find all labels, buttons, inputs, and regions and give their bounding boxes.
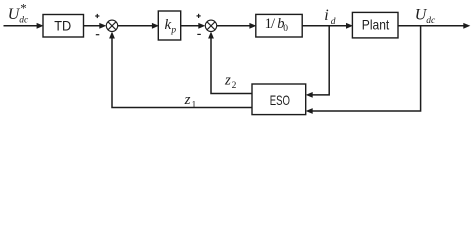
svg-text:d: d	[331, 17, 336, 27]
svg-text:dc: dc	[426, 16, 436, 26]
svg-text:*: *	[20, 0, 27, 15]
svg-text:1: 1	[192, 101, 197, 111]
svg-text:p: p	[170, 26, 176, 36]
svg-text:z: z	[224, 72, 231, 88]
svg-text:0: 0	[283, 24, 288, 34]
svg-text:TD: TD	[54, 17, 71, 33]
svg-text:2: 2	[232, 81, 237, 91]
svg-text:i: i	[324, 7, 328, 24]
svg-text:Plant: Plant	[362, 16, 390, 32]
svg-text:z: z	[184, 92, 191, 108]
svg-text:ESO: ESO	[270, 92, 290, 108]
svg-text:dc: dc	[19, 15, 29, 25]
